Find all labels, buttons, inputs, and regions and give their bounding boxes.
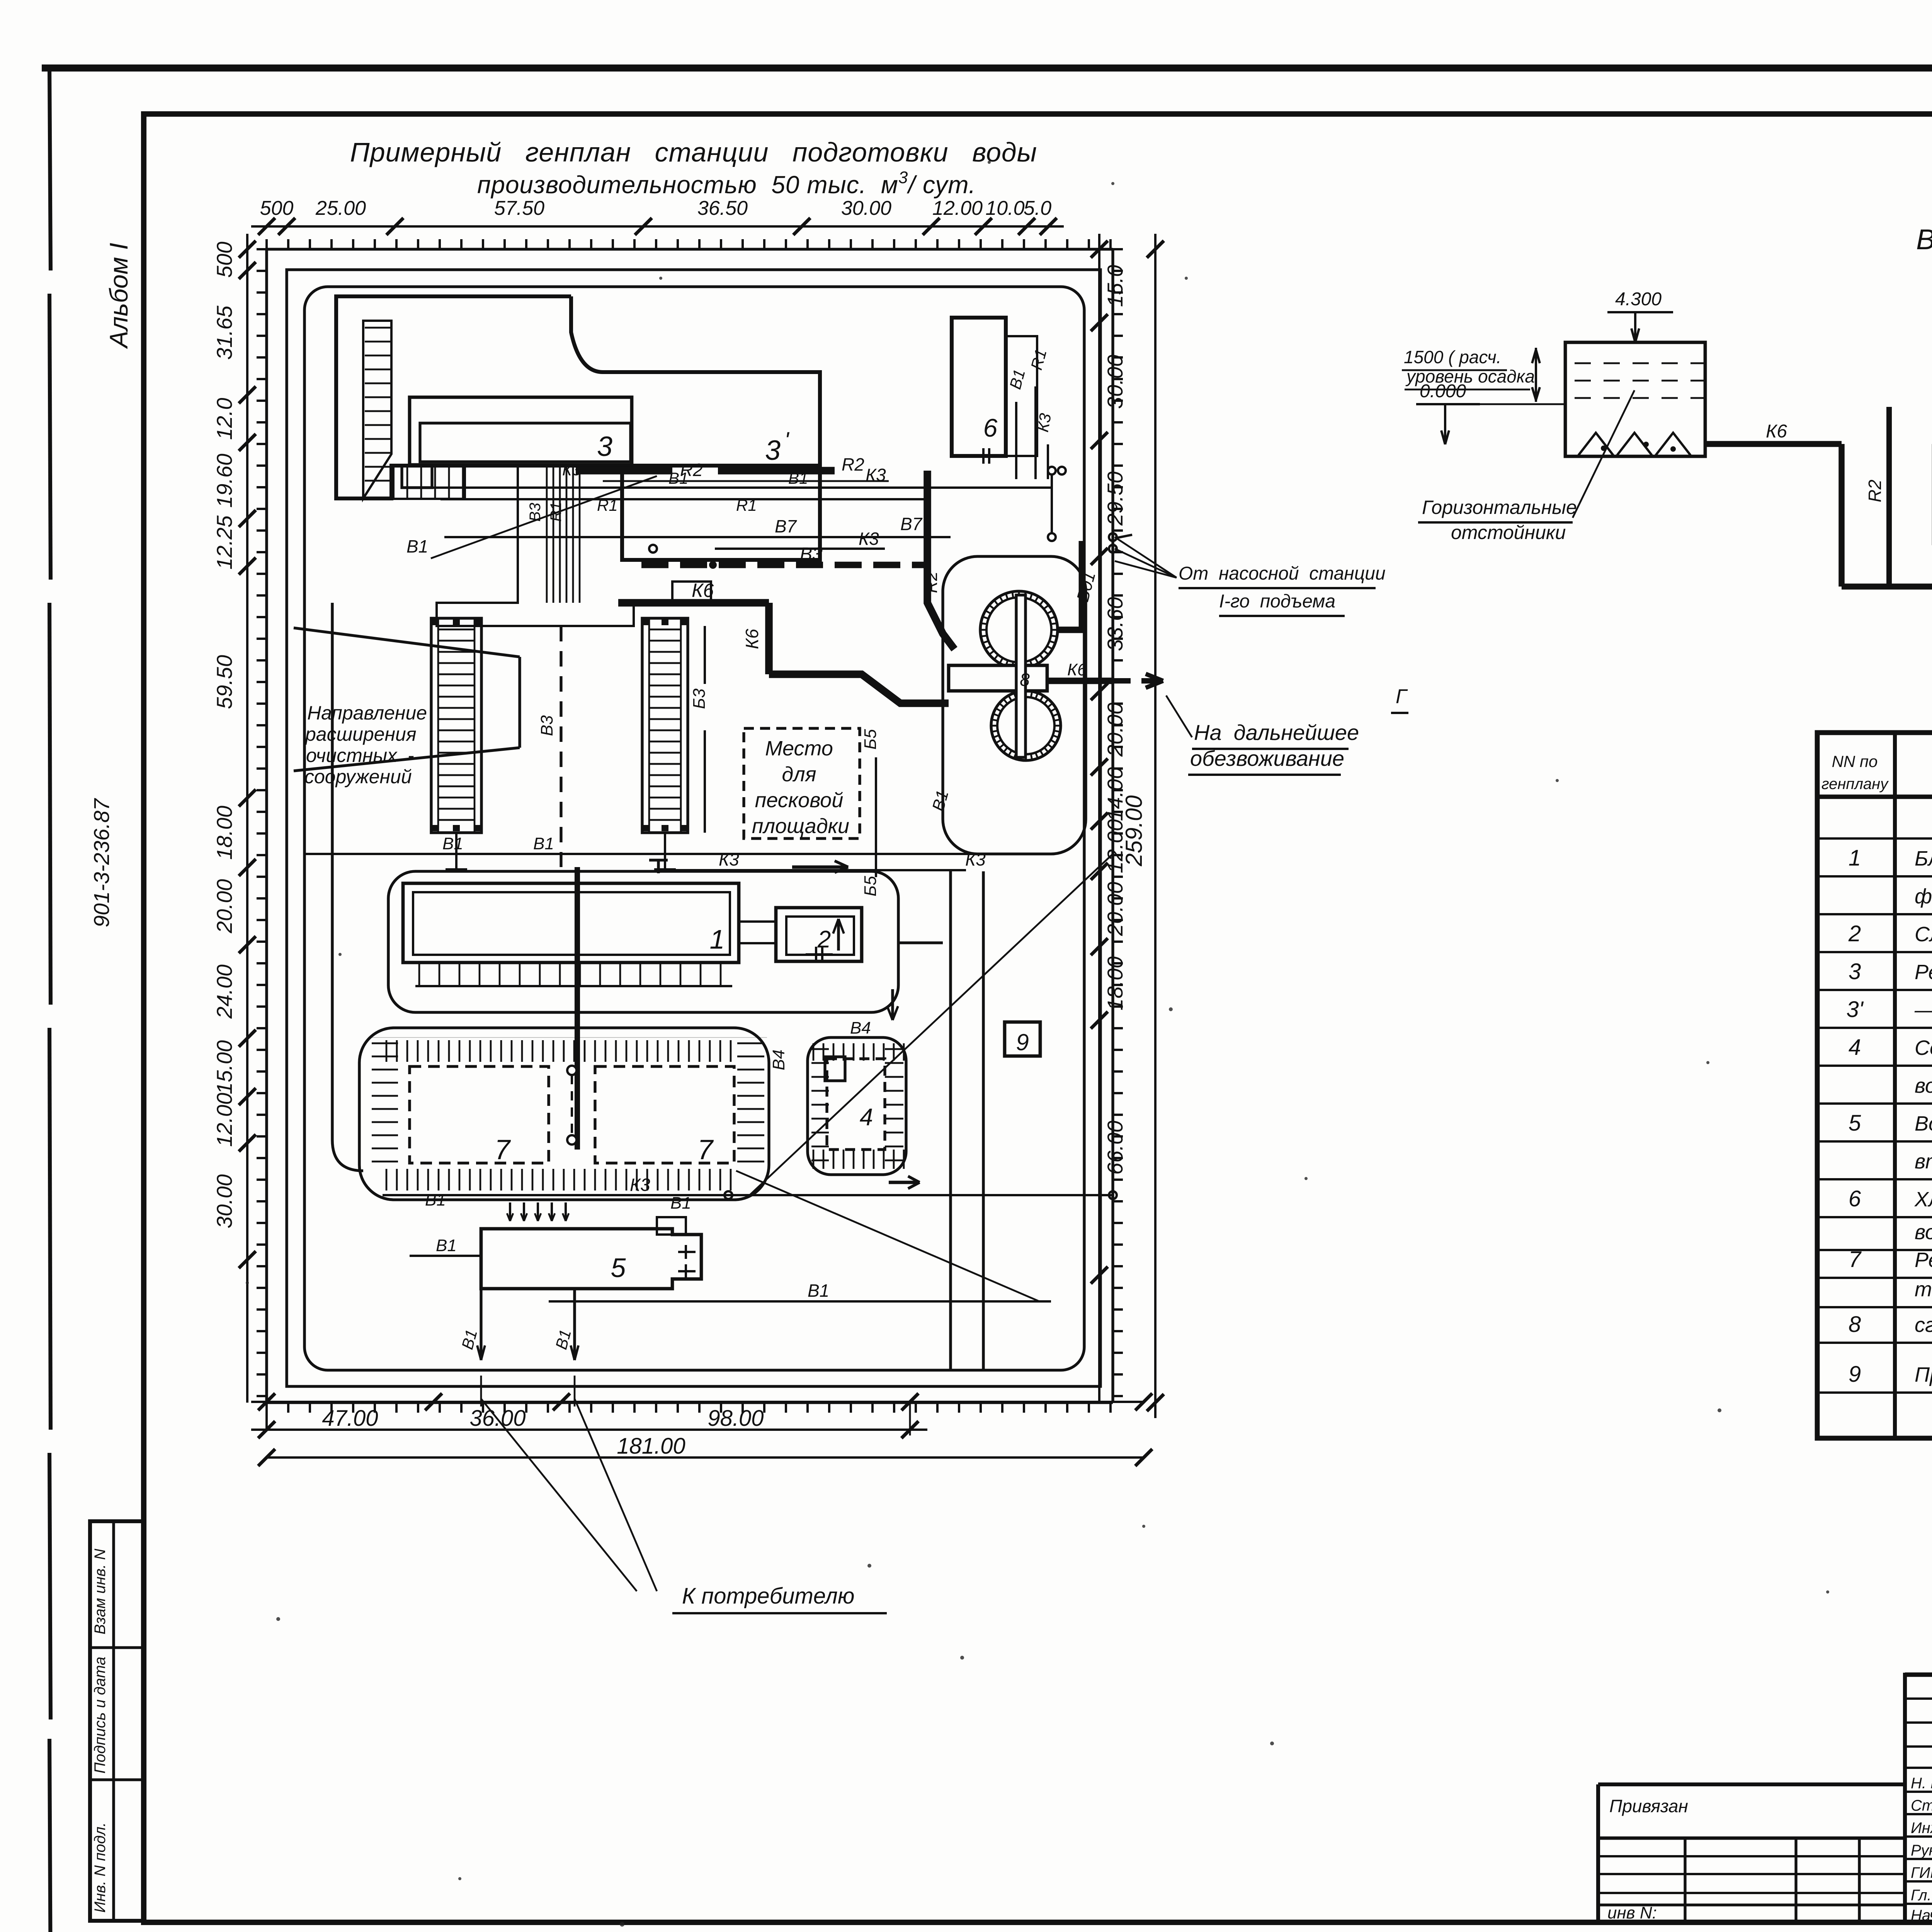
svg-text:В1: В1 bbox=[670, 1194, 691, 1213]
svg-text:Б5: Б5 bbox=[861, 876, 880, 896]
svg-text:фильтров. Вариант с вихревыми: фильтров. Вариант с вихревыми смесителям… bbox=[1915, 885, 1932, 908]
svg-text:К6: К6 bbox=[1766, 421, 1787, 442]
svg-text:6: 6 bbox=[983, 413, 998, 442]
svg-text:500: 500 bbox=[260, 197, 294, 219]
svg-text:R2: R2 bbox=[842, 454, 864, 474]
svg-text:259.00: 259.00 bbox=[1121, 795, 1147, 867]
svg-text:R2: R2 bbox=[922, 571, 941, 593]
svg-text:К6: К6 bbox=[742, 629, 762, 649]
svg-text:8: 8 bbox=[1020, 670, 1030, 690]
svg-text:Нач.отд.: Нач.отд. bbox=[1911, 1907, 1932, 1924]
svg-text:R2: R2 bbox=[1865, 480, 1885, 502]
svg-text:3: 3 bbox=[1849, 959, 1861, 984]
svg-text:Привязан: Привязан bbox=[1609, 1796, 1688, 1816]
svg-text:Взам инв. N: Взам инв. N bbox=[92, 1549, 109, 1634]
svg-text:Место: Место bbox=[765, 737, 833, 760]
svg-text:сгустители осадка: сгустители осадка bbox=[1915, 1313, 1932, 1337]
svg-text:сооружений: сооружений bbox=[304, 766, 412, 787]
svg-text:15.00: 15.00 bbox=[212, 1040, 236, 1094]
svg-text:901-3-236.87: 901-3-236.87 bbox=[89, 798, 114, 927]
svg-text:К6: К6 bbox=[1067, 660, 1087, 679]
svg-text:В1: В1 bbox=[808, 1281, 829, 1301]
svg-text:В7: В7 bbox=[775, 516, 797, 536]
svg-text:25.00: 25.00 bbox=[315, 197, 366, 219]
svg-text:Проходная: Проходная bbox=[1915, 1363, 1932, 1386]
svg-text:В1: В1 bbox=[668, 469, 688, 487]
svg-text:Примерный генплан станции: Примерный генплан станции подготовки вод… bbox=[350, 137, 1037, 167]
svg-text:1: 1 bbox=[1849, 845, 1861, 871]
svg-text:Хлораторная для обеззаражи: Хлораторная для обеззараживания питьевых bbox=[1914, 1188, 1932, 1211]
svg-text:К потребителю: К потребителю bbox=[682, 1583, 855, 1609]
svg-text:К3: К3 bbox=[630, 1175, 650, 1195]
svg-text:36.50: 36.50 bbox=[697, 197, 748, 219]
svg-text:30.00: 30.00 bbox=[841, 197, 891, 219]
svg-text:расширения: расширения bbox=[304, 723, 417, 745]
svg-text:29.50: 29.50 bbox=[1103, 471, 1127, 526]
svg-text:Водопроводная насосная с: Водопроводная насосная станция bbox=[1915, 1112, 1932, 1135]
svg-text:Рук. бр.: Рук. бр. bbox=[1911, 1842, 1932, 1859]
svg-text:В3: В3 bbox=[527, 503, 544, 522]
svg-text:Б3: Б3 bbox=[690, 688, 709, 709]
svg-text:R1: R1 bbox=[597, 496, 618, 514]
svg-text:7: 7 bbox=[697, 1134, 714, 1165]
svg-text:7: 7 bbox=[1849, 1247, 1862, 1272]
svg-text:NN по: NN по bbox=[1832, 752, 1878, 770]
svg-text:0.000: 0.000 bbox=[1420, 381, 1466, 401]
svg-text:24.00: 24.00 bbox=[212, 964, 236, 1019]
svg-text:18.00: 18.00 bbox=[212, 806, 236, 860]
svg-text:2: 2 bbox=[817, 926, 831, 953]
svg-text:К3: К3 bbox=[965, 849, 986, 869]
svg-text:500: 500 bbox=[212, 241, 236, 277]
svg-text:В1: В1 bbox=[442, 834, 463, 853]
svg-text:2: 2 bbox=[1848, 921, 1861, 946]
svg-text:66.00: 66.00 bbox=[1103, 1121, 1127, 1175]
svg-text:генплану: генплану bbox=[1821, 776, 1889, 793]
svg-text:9: 9 bbox=[1016, 1029, 1029, 1055]
svg-text:В3: В3 bbox=[800, 544, 823, 565]
svg-text:Ст. техн.: Ст. техн. bbox=[1911, 1797, 1932, 1814]
svg-text:1: 1 bbox=[710, 924, 725, 954]
svg-text:В1: В1 bbox=[533, 834, 554, 853]
svg-text:тонные сборные емкостью: тонные сборные емкостью 3200 м3 bbox=[1915, 1277, 1932, 1301]
svg-text:От насосной станции: От насосной станции bbox=[1179, 563, 1386, 584]
svg-text:для: для bbox=[782, 763, 816, 786]
svg-text:очистных -: очистных - bbox=[306, 745, 414, 766]
svg-text:Направление: Направление bbox=[307, 702, 427, 724]
svg-text:6: 6 bbox=[1849, 1186, 1861, 1211]
svg-text:57.50: 57.50 bbox=[494, 197, 544, 219]
svg-text:В1: В1 bbox=[406, 536, 428, 556]
svg-text:Высотная схема сооружений: Высотная схема сооружений bbox=[1916, 223, 1932, 255]
svg-text:Инж.: Инж. bbox=[1911, 1820, 1932, 1837]
svg-text:8: 8 bbox=[1849, 1312, 1861, 1337]
svg-text:181.00: 181.00 bbox=[617, 1434, 685, 1459]
svg-text:К6: К6 bbox=[692, 580, 714, 601]
svg-text:5.0: 5.0 bbox=[1024, 197, 1051, 219]
svg-text:3: 3 bbox=[765, 435, 781, 466]
svg-text:4: 4 bbox=[1849, 1035, 1861, 1060]
svg-text:Горизонтальные: Горизонтальные bbox=[1422, 497, 1577, 518]
svg-text:В1: В1 bbox=[425, 1190, 446, 1209]
svg-text:На дальнейшее: На дальнейшее bbox=[1194, 720, 1359, 745]
svg-text:Инв. N подл.: Инв. N подл. bbox=[92, 1822, 109, 1913]
svg-text:5: 5 bbox=[611, 1253, 626, 1283]
svg-text:В4: В4 bbox=[769, 1049, 788, 1070]
svg-text:Реагентное хозяйство |на 2: Реагентное хозяйство |на 2 основных реаг… bbox=[1915, 961, 1932, 984]
svg-text:Н. Контр.: Н. Контр. bbox=[1911, 1775, 1932, 1792]
svg-text:4: 4 bbox=[860, 1104, 873, 1131]
svg-text:5: 5 bbox=[1849, 1111, 1861, 1136]
svg-text:вод производительностью 25кг т: вод производительностью 25кг товарного х… bbox=[1915, 1221, 1932, 1244]
svg-text:1500 ( расч.: 1500 ( расч. bbox=[1404, 347, 1501, 367]
svg-text:В7: В7 bbox=[900, 514, 923, 534]
svg-text:В3: В3 bbox=[537, 715, 556, 736]
svg-text:В4: В4 bbox=[850, 1019, 871, 1037]
svg-text:9: 9 bbox=[1849, 1362, 1861, 1387]
svg-text:Гл.спец.: Гл.спец. bbox=[1911, 1887, 1932, 1904]
svg-text:Г: Г bbox=[1396, 685, 1408, 708]
svg-text:К3: К3 bbox=[859, 529, 879, 549]
svg-text:7: 7 bbox=[495, 1134, 511, 1165]
svg-text:98.00: 98.00 bbox=[707, 1406, 764, 1431]
svg-text:ГИП: ГИП bbox=[1911, 1864, 1932, 1881]
svg-text:33.60: 33.60 bbox=[1103, 597, 1127, 651]
svg-text:59.50: 59.50 bbox=[212, 655, 236, 709]
svg-text:второго подъема: второго подъема bbox=[1915, 1150, 1932, 1173]
svg-text:К3: К3 bbox=[719, 849, 739, 869]
svg-text:Служебный корпус: Служебный корпус bbox=[1915, 923, 1932, 946]
svg-text:отстойники: отстойники bbox=[1451, 522, 1566, 543]
svg-text:Блок входных устройств, отст: Блок входных устройств, отстойников и bbox=[1915, 847, 1932, 870]
svg-text:I-го подъема: I-го подъема bbox=[1219, 591, 1335, 612]
svg-text:20.00: 20.00 bbox=[212, 879, 236, 934]
svg-text:Альбом I: Альбом I bbox=[104, 243, 133, 349]
svg-text:площадки: площадки bbox=[752, 815, 849, 838]
svg-text:Резервуары для воды прямоу: Резервуары для воды прямоугольные железо… bbox=[1915, 1248, 1932, 1272]
svg-text:30.00: 30.00 bbox=[212, 1174, 236, 1228]
svg-text:20.00: 20.00 bbox=[1103, 702, 1127, 757]
svg-text:В1: В1 bbox=[788, 469, 808, 487]
svg-text:12.0: 12.0 bbox=[212, 398, 236, 440]
svg-text:воды после промывки ф: воды после промывки фильтров bbox=[1915, 1074, 1932, 1097]
svg-text:Сооружения для повторного: Сооружения для повторного использования bbox=[1915, 1036, 1932, 1060]
svg-text:В1: В1 bbox=[436, 1236, 457, 1255]
svg-text:31.65: 31.65 bbox=[212, 305, 236, 360]
svg-text:К3: К3 bbox=[562, 461, 581, 479]
svg-text:обезвоживание: обезвоживание bbox=[1190, 746, 1344, 770]
svg-text:12.25: 12.25 bbox=[212, 515, 236, 570]
svg-text:R1: R1 bbox=[548, 502, 565, 522]
svg-text:песковой: песковой bbox=[755, 789, 844, 812]
svg-text:Подпись и дата: Подпись и дата bbox=[92, 1656, 109, 1774]
svg-text:4.300: 4.300 bbox=[1615, 289, 1662, 310]
svg-text:инв N:: инв N: bbox=[1607, 1903, 1657, 1922]
svg-text:————— „ —————— |на 5 реа: ————— „ —————— |на 5 реагентов| · bbox=[1914, 998, 1932, 1022]
svg-text:19.60: 19.60 bbox=[212, 454, 236, 508]
svg-text:10.0: 10.0 bbox=[985, 197, 1024, 219]
svg-text:20.00: 20.00 bbox=[1103, 882, 1127, 936]
svg-text:12.00: 12.00 bbox=[212, 1093, 236, 1147]
svg-text:Б5: Б5 bbox=[861, 729, 880, 750]
svg-text:3: 3 bbox=[597, 431, 612, 462]
svg-text:R1: R1 bbox=[736, 496, 757, 514]
svg-text:12.00: 12.00 bbox=[932, 197, 983, 219]
svg-text:3': 3' bbox=[1846, 997, 1864, 1022]
